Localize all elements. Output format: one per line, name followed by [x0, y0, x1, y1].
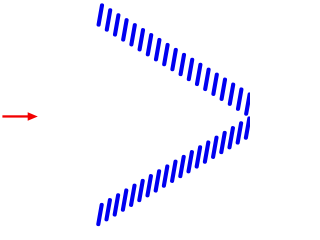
- mirror M2 (bottom, hatched): [98, 119, 249, 225]
- mirror M1 (top, hatched): [99, 5, 250, 113]
- object arrow (red): [2, 112, 37, 120]
